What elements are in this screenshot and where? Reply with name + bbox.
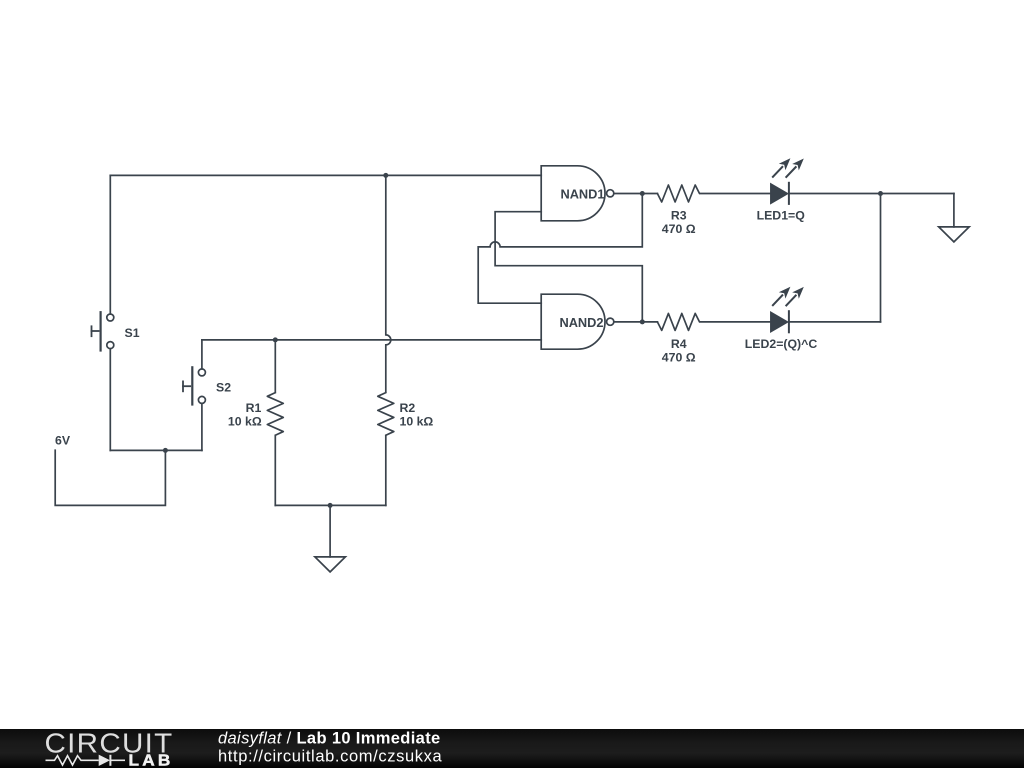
wire ground bus bottom xyxy=(275,504,386,506)
svg-text:daisyflat / Lab 10 Immediate: daisyflat / Lab 10 Immediate xyxy=(218,730,441,748)
label R3 value xyxy=(662,209,696,237)
resistor R2 xyxy=(378,393,394,436)
op-amp NAND2 gate body U2 xyxy=(541,294,605,349)
svg-text:LAB: LAB xyxy=(129,753,174,768)
wire LED2 to right vertical xyxy=(790,321,881,323)
node junction NAND1 output xyxy=(640,191,645,196)
NAND1 output bubble xyxy=(607,190,614,197)
op-amp NAND1 gate body U1 xyxy=(541,166,605,221)
switch S1 xyxy=(92,312,114,350)
node junction right net xyxy=(878,191,883,196)
wire NAND1 output to R3 xyxy=(614,193,658,195)
NAND2 output bubble xyxy=(607,318,614,325)
node junction lower-left net to 6V xyxy=(163,448,168,453)
node junction top net to R2 xyxy=(383,173,388,178)
resistor R1 xyxy=(267,393,283,436)
svg-text:S1: S1 xyxy=(125,326,140,340)
svg-text:10 kΩ: 10 kΩ xyxy=(228,414,262,428)
svg-text:R2: R2 xyxy=(400,401,416,415)
wire R1 bottom lead xyxy=(274,435,276,505)
wire R2 top lead with hop over y340 net xyxy=(386,175,391,392)
wire lower-left horizontal net xyxy=(110,449,202,451)
LED LED1 xyxy=(771,158,804,204)
wire R2 bottom lead xyxy=(385,435,387,505)
label R1 value xyxy=(228,401,262,429)
wire S2 top to y340 net xyxy=(201,340,203,369)
svg-text:6V: 6V xyxy=(55,433,71,447)
svg-text:LED1=Q: LED1=Q xyxy=(757,209,806,223)
wire feedback NAND1 out to NAND2 input A with hop xyxy=(478,194,642,304)
wire R1 top lead xyxy=(274,340,276,393)
LED LED2 xyxy=(771,287,804,333)
label R4 value xyxy=(662,337,696,365)
wire y340 net from S2 to NAND2 input B xyxy=(202,339,541,341)
switch S2 xyxy=(183,367,205,404)
svg-text:http://circuitlab.com/czsukxa: http://circuitlab.com/czsukxa xyxy=(218,748,443,766)
wire left vertical from top net down to S1 xyxy=(109,175,111,314)
svg-text:R3: R3 xyxy=(671,209,687,223)
svg-text:NAND2: NAND2 xyxy=(559,315,603,330)
svg-text:470 Ω: 470 Ω xyxy=(662,351,696,365)
wire NAND2 output to R4 xyxy=(614,321,658,323)
svg-text:470 Ω: 470 Ω xyxy=(662,222,696,236)
wire right ground stub xyxy=(953,194,955,227)
svg-text:NAND1: NAND1 xyxy=(560,187,604,202)
ground GND2 xyxy=(939,227,970,242)
wire right vertical to junction xyxy=(880,194,882,322)
label R2 value xyxy=(400,401,434,429)
wire ground stub bottom xyxy=(329,505,331,557)
wire 6V supply stub xyxy=(55,450,165,505)
wire feedback NAND2 out to NAND1 input B xyxy=(495,212,642,322)
resistor R3 xyxy=(657,185,699,202)
wire R3 to LED1 xyxy=(700,193,771,195)
svg-text:R1: R1 xyxy=(246,401,262,415)
wire top net from S1 to NAND1 input A xyxy=(110,174,541,176)
svg-text:10 kΩ: 10 kΩ xyxy=(400,414,434,428)
wire R4 to LED2 xyxy=(700,321,771,323)
svg-text:S2: S2 xyxy=(216,380,231,394)
wire S1 bottom to lower-left net xyxy=(109,349,111,451)
node junction ground bus xyxy=(328,503,333,508)
resistor R4 xyxy=(657,313,699,330)
ground GND1 xyxy=(315,557,346,572)
wire S2 bottom to lower-left net xyxy=(201,404,203,451)
CircuitLab logo resistor-diode squiggle xyxy=(46,755,126,766)
wire LED1 to right net xyxy=(790,193,954,195)
svg-text:R4: R4 xyxy=(671,337,687,351)
svg-text:LED2=(Q)^C: LED2=(Q)^C xyxy=(745,337,818,351)
node junction y340 net to R1 xyxy=(273,337,278,342)
node junction NAND2 output xyxy=(640,319,645,324)
